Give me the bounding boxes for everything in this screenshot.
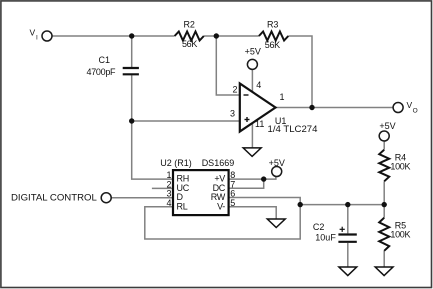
wire R4 to node C xyxy=(383,181,385,204)
wire opamp pin11 to ground xyxy=(251,123,253,148)
+5V supply R4 xyxy=(379,131,389,141)
terminal VO xyxy=(393,103,403,113)
ground U2 V- xyxy=(267,219,285,228)
wire U2 pin4 RL loop to node B xyxy=(145,205,300,239)
wire output to VO xyxy=(276,107,394,109)
svg-text:V: V xyxy=(30,28,36,38)
wire C2 to ground xyxy=(347,243,349,267)
svg-text:5: 5 xyxy=(230,198,235,208)
svg-text:R2: R2 xyxy=(183,20,195,30)
wire top from VI to R2 xyxy=(52,35,175,37)
junction dot node A xyxy=(129,118,134,123)
capacitor C1 xyxy=(123,68,139,74)
wire feedback to pin2 xyxy=(216,36,240,95)
ground op-amp xyxy=(243,148,261,157)
op-amp plus sign xyxy=(245,117,250,122)
svg-text:10uF: 10uF xyxy=(315,233,336,243)
wire +5V to opamp pin4 xyxy=(251,69,253,92)
resistor R5 xyxy=(379,218,389,251)
svg-text:DIGITAL CONTROL: DIGITAL CONTROL xyxy=(11,192,97,203)
svg-text:3: 3 xyxy=(230,109,235,119)
terminal VI xyxy=(42,31,52,41)
resistor R4 xyxy=(379,150,389,182)
svg-text:C2: C2 xyxy=(313,222,325,232)
svg-text:+5V: +5V xyxy=(245,47,261,57)
wire node C to R5 xyxy=(383,205,385,218)
junction dot top node xyxy=(129,33,134,38)
wire U2 pin7 DC up to +V wire xyxy=(229,179,264,188)
wire between R2 and R3 xyxy=(204,35,259,37)
junction dot +V node xyxy=(261,176,266,181)
svg-text:V-: V- xyxy=(217,201,225,211)
svg-text:56K: 56K xyxy=(182,39,197,49)
op-amp U1 xyxy=(240,84,276,132)
label C2 plus xyxy=(340,227,345,232)
svg-text:100K: 100K xyxy=(390,161,410,171)
svg-text:100K: 100K xyxy=(390,229,410,239)
junction dot node B xyxy=(298,202,303,207)
svg-text:1/4 TLC274: 1/4 TLC274 xyxy=(268,124,319,135)
svg-text:1: 1 xyxy=(280,92,285,102)
wire U2 pin2 UC stub xyxy=(152,187,173,189)
wire R5 to ground xyxy=(383,251,385,267)
resistor R3 xyxy=(259,32,288,41)
wire node to C2 xyxy=(347,205,349,234)
svg-text:DS1669: DS1669 xyxy=(202,158,235,168)
capacitor C2 xyxy=(338,235,356,242)
ground R5 xyxy=(375,267,393,276)
svg-text:2: 2 xyxy=(233,85,238,95)
svg-text:11: 11 xyxy=(255,119,264,129)
svg-text:4700pF: 4700pF xyxy=(87,67,117,77)
svg-text:C1: C1 xyxy=(99,55,111,65)
+5V supply U2 xyxy=(272,167,282,177)
svg-text:RL: RL xyxy=(177,201,188,211)
svg-text:56K: 56K xyxy=(265,40,280,50)
wire node A to opamp pin3 xyxy=(132,120,240,122)
wire U2 pin8 +V to +5V xyxy=(229,176,276,179)
IC U2 DS1669 xyxy=(173,170,229,215)
op-amp minus sign xyxy=(244,94,249,96)
junction dot feedback node xyxy=(214,33,219,38)
wire top node down to C1 xyxy=(131,36,133,67)
wire R3 to output node xyxy=(288,36,312,108)
svg-text:4: 4 xyxy=(166,198,171,208)
svg-text:V: V xyxy=(407,100,413,110)
svg-text:O: O xyxy=(413,108,418,115)
wire +5V to R4 xyxy=(383,141,385,150)
terminal DIGITAL CONTROL xyxy=(101,193,111,203)
junction dot C2 node xyxy=(345,202,350,207)
wire node B to node C xyxy=(300,204,384,206)
svg-text:I: I xyxy=(36,35,38,42)
wire U2 pin5 V- to ground xyxy=(229,207,277,219)
resistor R2 xyxy=(175,32,204,41)
wire digital control to U2 pin3 D xyxy=(111,197,173,199)
wire node A down to U2 pin1 RH xyxy=(132,121,173,179)
svg-text:U2 (R1): U2 (R1) xyxy=(160,158,192,168)
svg-text:+5V: +5V xyxy=(379,121,395,131)
svg-text:+5V: +5V xyxy=(269,158,285,168)
wire C1 to node A xyxy=(131,75,133,121)
wire U2 pin6 RW to node B xyxy=(229,198,301,205)
svg-text:R3: R3 xyxy=(267,20,279,30)
junction dot node C xyxy=(382,202,387,207)
+5V supply op-amp xyxy=(247,59,257,69)
svg-text:4: 4 xyxy=(256,80,261,90)
junction dot output node xyxy=(309,105,314,110)
ground C2 xyxy=(339,267,357,276)
